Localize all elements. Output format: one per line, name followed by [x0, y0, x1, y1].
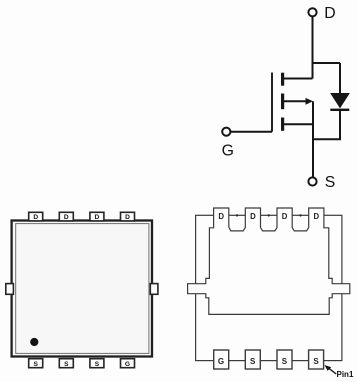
svg-text:D: D	[33, 214, 38, 221]
svg-text:S: S	[95, 361, 100, 368]
gate plate line	[271, 73, 273, 132]
pin S3 bottom	[90, 359, 104, 368]
svg-text:D: D	[250, 212, 256, 221]
pad S2 bottom	[277, 350, 292, 369]
pin S1 bottom	[29, 359, 43, 368]
wire source vertical	[312, 101, 314, 177]
svg-text:D: D	[64, 214, 69, 221]
tick dot between D3 D4	[299, 214, 301, 216]
pin G bottom	[121, 359, 135, 368]
diode cathode bar	[330, 109, 349, 111]
pin1 pointer arrow	[325, 365, 337, 374]
pad S1 bottom	[245, 350, 260, 369]
tick dot between D1 D2	[236, 214, 238, 216]
svg-text:S: S	[313, 357, 319, 366]
svg-text:D: D	[313, 212, 319, 221]
channel bar middle	[281, 94, 284, 110]
svg-text:S: S	[250, 357, 256, 366]
svg-text:D: D	[95, 214, 100, 221]
pin1 marker dot	[30, 338, 38, 346]
svg-text:S: S	[33, 361, 38, 368]
pin D3 top	[90, 212, 104, 221]
wire source bar	[284, 123, 313, 125]
pad G bottom	[214, 350, 229, 369]
pin S2 bottom	[59, 359, 73, 368]
terminal G circle	[222, 128, 230, 136]
terminal D circle	[308, 8, 316, 16]
svg-text:D: D	[324, 5, 335, 22]
wire gate	[230, 131, 272, 133]
arrow head on body wire	[306, 98, 314, 105]
wire diode branch top	[339, 63, 341, 94]
svg-text:D: D	[282, 212, 288, 221]
wire drain to channel	[284, 78, 313, 80]
channel bar top	[281, 73, 284, 86]
pin D2 top	[59, 212, 73, 221]
wire diode branch bottom	[313, 110, 340, 139]
svg-text:Pin1: Pin1	[337, 370, 354, 379]
svg-text:S: S	[282, 357, 288, 366]
svg-text:G: G	[125, 361, 130, 368]
diode D1 triangle	[330, 93, 350, 108]
svg-text:D: D	[218, 212, 224, 221]
left side tab	[6, 284, 14, 295]
package outline rect	[196, 215, 342, 360]
channel bar bottom	[281, 118, 284, 131]
svg-text:G: G	[222, 143, 234, 160]
terminal S circle	[308, 177, 316, 185]
package body outer border	[12, 221, 152, 357]
pin D4 top	[121, 212, 135, 221]
svg-text:D: D	[125, 214, 130, 221]
right side tab	[150, 284, 158, 295]
package body inner border	[16, 224, 149, 354]
pin D1 top	[29, 212, 43, 221]
svg-text:G: G	[218, 357, 224, 366]
svg-text:S: S	[64, 361, 69, 368]
tick dot between D2 D3	[268, 214, 270, 216]
wire drain to diode branch	[313, 62, 341, 64]
drain pad with 4 D pins and side tabs (combined outline)	[188, 208, 350, 314]
pad S3 bottom	[309, 350, 324, 369]
svg-text:S: S	[325, 174, 336, 191]
wire drain vertical	[312, 16, 314, 78]
wire body with arrow	[284, 100, 306, 102]
